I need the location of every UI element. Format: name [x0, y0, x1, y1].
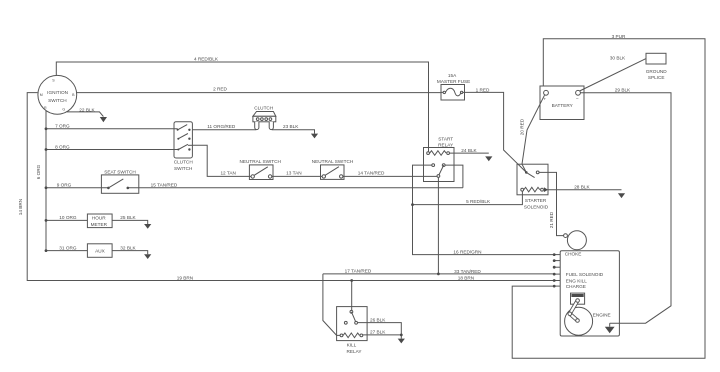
- start relay arm: [438, 165, 443, 176]
- junction dot 5RED/BLK: [411, 203, 414, 206]
- starter motor terminal: [564, 234, 568, 238]
- engine terminal dot 3: [553, 266, 556, 269]
- wire 10 ORG: bus to hour meter: [46, 219, 87, 221]
- svg-text:SWITCH: SWITCH: [174, 166, 193, 171]
- svg-text:SWITCH: SWITCH: [48, 98, 67, 103]
- svg-text:31 ORG: 31 ORG: [59, 245, 77, 250]
- kill relay arm: [351, 312, 355, 322]
- clutch connector left foot: [255, 122, 259, 130]
- wire 12 TAN: clutch switch to neutral switch 1: [192, 145, 252, 176]
- wire stub eng kill terminal: [554, 280, 560, 282]
- neutral switch 1 box: [249, 165, 273, 180]
- svg-text:−: −: [576, 96, 579, 101]
- battery - terminal: [576, 90, 581, 95]
- junction dot bus/8ORG: [45, 148, 48, 151]
- svg-text:14 TAN/RED: 14 TAN/RED: [358, 171, 385, 176]
- svg-text:G: G: [62, 107, 65, 111]
- svg-text:KILL: KILL: [347, 343, 357, 348]
- svg-text:START: START: [438, 136, 453, 141]
- ground arrow 32 BLK: [144, 254, 151, 259]
- battery + terminal: [544, 90, 549, 95]
- clutch switch pole 1: [178, 125, 188, 130]
- clutch connector housing: [253, 112, 276, 117]
- svg-text:26 BLK: 26 BLK: [370, 317, 386, 322]
- svg-text:28 BLK: 28 BLK: [574, 184, 590, 189]
- svg-text:MASTER FUSE: MASTER FUSE: [437, 79, 470, 84]
- junction dot bus/9ORG: [45, 186, 48, 189]
- svg-text:CHOKE: CHOKE: [565, 252, 582, 257]
- svg-text:CLUTCH: CLUTCH: [254, 106, 273, 111]
- wire start relay pivot down to 33 TAN/RED junction: [437, 178, 439, 274]
- ground splice box: [646, 53, 666, 64]
- fuse element: [441, 91, 443, 93]
- engine piston cylinder: [571, 293, 585, 304]
- wire kill relay coil feed: down from 17 TAN/RED to kill relay coil: [323, 274, 340, 336]
- engine terminal dot choke: [553, 253, 556, 256]
- svg-text:BATTERY: BATTERY: [552, 103, 574, 108]
- svg-text:13 TAN: 13 TAN: [286, 171, 301, 176]
- svg-text:15 TAN/RED: 15 TAN/RED: [151, 182, 178, 187]
- svg-text:RELAY: RELAY: [438, 143, 454, 148]
- clutch connector pins: [256, 118, 259, 121]
- svg-text:22 BLK: 22 BLK: [79, 107, 95, 112]
- solenoid battery contact (node): [525, 171, 528, 174]
- kill relay box: [337, 307, 368, 341]
- wire 32 BLK: aux to ground: [112, 251, 148, 255]
- svg-text:ENG KILL: ENG KILL: [566, 279, 587, 284]
- wire stub terminal 2: [554, 260, 560, 262]
- engine terminal dot fuel solenoid: [553, 273, 556, 276]
- clutch switch box: [174, 122, 192, 158]
- wire 30 BLK: battery - to ground splice: [580, 59, 646, 91]
- engine terminal dot eng kill: [553, 279, 556, 282]
- wire 25 BLK: hour meter to ground: [112, 220, 148, 224]
- ground arrow 24 BLK: [485, 156, 492, 161]
- wire kill relay switch feed from 19 BRN: [351, 281, 353, 311]
- solenoid coil: [521, 188, 524, 191]
- clutch switch pole3 output: [188, 144, 193, 146]
- clutch connector right foot: [269, 122, 273, 130]
- ground arrow 23 BLK: [311, 134, 318, 139]
- svg-text:8 ORG: 8 ORG: [55, 144, 70, 149]
- svg-text:SEAT SWITCH: SEAT SWITCH: [104, 170, 136, 175]
- svg-text:25 BLK: 25 BLK: [120, 215, 136, 220]
- svg-text:STARTER: STARTER: [525, 198, 547, 203]
- seat switch contacts: [107, 187, 110, 190]
- svg-text:4 RED/BLK: 4 RED/BLK: [194, 56, 219, 61]
- wire 22 BLK: ignition G pin to ground: [67, 112, 104, 117]
- wire 14 BRN / 19 BRN / 18 BRN: ignition M pin down left side, across bottom, to engine ENG KILL: [27, 93, 554, 281]
- solenoid motor contact: [536, 171, 539, 174]
- kill relay contacts: [344, 321, 347, 324]
- clutch switch pole 2: [178, 134, 188, 139]
- svg-text:29 BLK: 29 BLK: [615, 88, 631, 93]
- svg-text:21 RED: 21 RED: [549, 211, 554, 228]
- engine connecting rod: [570, 301, 578, 314]
- wire 29 BLK: battery - right, down right side, to engine ground: [580, 93, 671, 323]
- svg-text:5 RED/BLK: 5 RED/BLK: [466, 199, 491, 204]
- engine terminal dot 2: [553, 259, 556, 262]
- svg-text:33 TAN/RED: 33 TAN/RED: [454, 269, 481, 274]
- svg-text:HOUR: HOUR: [92, 216, 106, 221]
- svg-text:METER: METER: [91, 222, 108, 227]
- svg-text:ENGINE: ENGINE: [593, 313, 611, 318]
- starter solenoid box: [517, 164, 548, 195]
- wire stub choke terminal: [554, 254, 560, 256]
- junction dot bus/31ORG: [45, 249, 48, 252]
- aux box: [87, 244, 112, 257]
- solenoid arm: [526, 172, 534, 177]
- svg-text:9 ORG: 9 ORG: [57, 182, 72, 187]
- svg-text:19 BRN: 19 BRN: [177, 276, 193, 281]
- svg-text:16 RED/GRN: 16 RED/GRN: [453, 250, 481, 255]
- engine wrist pin: [576, 299, 580, 303]
- svg-text:FUEL SOLENOID: FUEL SOLENOID: [566, 272, 604, 277]
- svg-text:CHARGE: CHARGE: [566, 284, 586, 289]
- junction dot bus/7ORG: [45, 127, 48, 130]
- svg-text:11 ORG/RED: 11 ORG/RED: [207, 124, 236, 129]
- svg-text:6 ORG: 6 ORG: [36, 164, 41, 179]
- wire 1 RED: fuse to starter solenoid contact: [465, 92, 527, 172]
- svg-text:CLUTCH: CLUTCH: [174, 160, 193, 165]
- ignition switch circle: [38, 75, 77, 114]
- svg-text:S: S: [52, 79, 55, 83]
- start relay contacts: [432, 164, 435, 167]
- wire stub fuel solenoid terminal: [554, 273, 560, 275]
- svg-text:18 BRN: 18 BRN: [458, 275, 474, 280]
- wire 6 ORG: orange bus from ignition R pin: [45, 111, 47, 251]
- svg-text:AUX: AUX: [95, 248, 106, 253]
- junction dot bus/10ORG: [45, 219, 48, 222]
- master fuse F1 box: [441, 85, 465, 101]
- svg-text:27 BLK: 27 BLK: [370, 330, 386, 335]
- wire 24 BLK: start relay coil to ground: [450, 152, 489, 154]
- svg-text:24 BLK: 24 BLK: [461, 148, 477, 153]
- svg-text:10 ORG: 10 ORG: [59, 215, 77, 220]
- start relay pivot: [437, 175, 440, 178]
- junction dot 17/33 TAN/RED: [437, 273, 440, 276]
- svg-text:SOLENOID: SOLENOID: [524, 204, 549, 209]
- svg-text:IGNITION: IGNITION: [47, 90, 68, 95]
- wire 13 TAN: neutral switch 1 to neutral switch 2: [270, 175, 324, 177]
- ground arrow engine: [605, 327, 615, 334]
- kill relay top contact: [350, 310, 353, 313]
- svg-text:M: M: [40, 93, 43, 97]
- wire 8 ORG: bus to clutch switch: [46, 149, 178, 151]
- svg-text:B: B: [72, 93, 75, 97]
- solenoid coil arrow: [544, 187, 548, 192]
- svg-text:NEUTRAL SWITCH: NEUTRAL SWITCH: [312, 159, 354, 164]
- svg-text:1 RED: 1 RED: [476, 88, 490, 93]
- wire 4 RED/BLK: ignition S pin up, across top, down to start relay coil: [56, 62, 428, 152]
- svg-text:+: +: [543, 96, 546, 101]
- wire 23 BLK: clutch connector to ground: [272, 130, 315, 134]
- svg-text:30 BLK: 30 BLK: [610, 56, 626, 61]
- svg-text:RELAY: RELAY: [346, 349, 362, 354]
- svg-text:23 BLK: 23 BLK: [283, 124, 299, 129]
- wire 16 RED/GRN: start relay contact, down, to engine CHOKE: [413, 165, 555, 255]
- svg-text:12 TAN: 12 TAN: [220, 171, 235, 176]
- wire stub terminal 3: [554, 266, 560, 268]
- svg-text:15A: 15A: [448, 73, 457, 78]
- svg-text:17 TAN/RED: 17 TAN/RED: [345, 268, 372, 273]
- svg-text:20 RED: 20 RED: [519, 118, 524, 135]
- neutral switch 2 box: [321, 165, 345, 180]
- ground arrow 22 BLK: [100, 117, 107, 122]
- wire 26 BLK: kill relay contact to ground: [358, 323, 402, 339]
- kill relay coil: [340, 334, 343, 337]
- svg-text:14 BRN: 14 BRN: [18, 199, 23, 215]
- wire 28 BLK: solenoid coil to ground: [548, 189, 622, 191]
- hour meter box: [87, 214, 112, 228]
- svg-text:R: R: [44, 106, 47, 110]
- junction dot 27BLK ground: [400, 334, 403, 337]
- svg-text:NEUTRAL SWITCH: NEUTRAL SWITCH: [239, 159, 281, 164]
- wire 2 RED: ignition B pin to master fuse: [77, 92, 441, 94]
- start relay coil: [427, 152, 430, 155]
- engine box: [560, 251, 619, 336]
- wire 7 ORG: bus to clutch switch: [46, 128, 178, 130]
- seat switch box: [101, 175, 138, 193]
- wire 15 TAN/RED: seat switch to start relay: [128, 187, 463, 189]
- junction dot kill relay feed: [350, 279, 353, 282]
- wire engine ground stub: [609, 323, 611, 327]
- svg-text:32 BLK: 32 BLK: [120, 245, 136, 250]
- wire 17 TAN/RED / 33 TAN/RED: kill relay corner to engine FUEL SOLENOID: [323, 273, 554, 275]
- wire from start relay right contact down to 15 TAN/RED: [445, 165, 463, 188]
- wire 5 RED/BLK: junction to solenoid coil: [413, 191, 523, 205]
- ground arrow 26/27 BLK: [398, 339, 405, 344]
- ground arrow 28 BLK: [618, 193, 625, 198]
- wire 27 BLK: kill relay coil to ground junction: [363, 334, 401, 336]
- ground arrow 25 BLK: [144, 224, 151, 229]
- start relay K1 box: [424, 148, 455, 182]
- svg-text:GROUND: GROUND: [646, 69, 667, 74]
- svg-text:SPLICE: SPLICE: [648, 75, 665, 80]
- clutch switch pole 3: [178, 144, 188, 149]
- engine terminal dot charge: [553, 285, 556, 288]
- wire 21 RED: solenoid contact to starter motor: [539, 172, 563, 235]
- svg-text:3 PUR: 3 PUR: [612, 34, 626, 39]
- wire 3 PUR / charge loop: battery top, across top right, down right side, bottom, up to CHARGE: [512, 39, 705, 358]
- starter motor circle: [567, 231, 586, 250]
- wire 20 RED: battery + to starter solenoid contact: [522, 95, 545, 172]
- wire 31 ORG: bus to aux: [46, 250, 87, 252]
- wire stub charge terminal: [554, 285, 560, 287]
- svg-text:7 ORG: 7 ORG: [55, 124, 70, 129]
- wire 14 TAN/RED: neutral switch 2 to start relay pivot: [341, 175, 437, 177]
- seat switch arm: [108, 179, 123, 188]
- wire 9 ORG: orange bus to seat switch: [46, 187, 108, 189]
- wire 11 ORG/RED: clutch switch to clutch connector: [192, 129, 256, 131]
- svg-text:2 RED: 2 RED: [213, 86, 227, 91]
- battery box: [540, 86, 584, 120]
- engine crank circle: [565, 307, 593, 335]
